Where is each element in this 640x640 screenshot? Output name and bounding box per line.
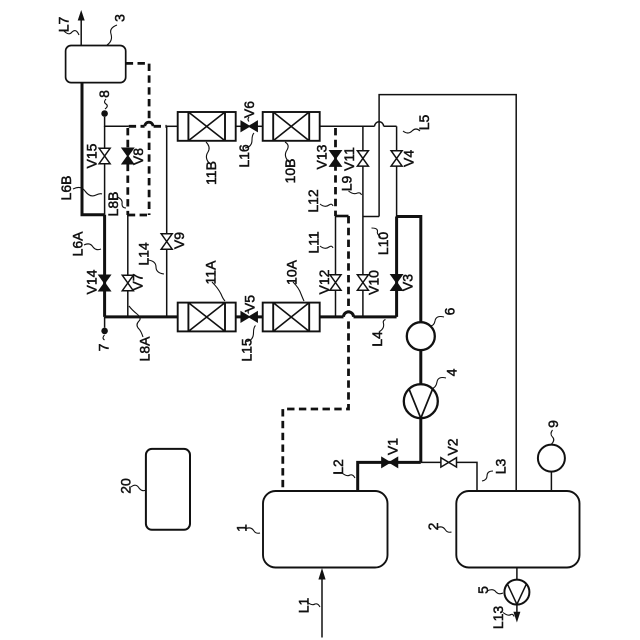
- label L9: [338, 176, 361, 195]
- valve V5 (closed): [241, 295, 258, 322]
- svg-text:V12: V12: [316, 269, 332, 294]
- svg-text:9: 9: [545, 420, 561, 428]
- valve V14 (closed): [83, 269, 110, 294]
- label L6B: [58, 176, 102, 201]
- heat exchanger 11B: [178, 112, 236, 141]
- svg-text:10B: 10B: [282, 159, 298, 184]
- svg-text:L1: L1: [295, 598, 311, 614]
- svg-text:L2: L2: [330, 459, 346, 475]
- wire 10B to V4 corner with hop over x379: [320, 125, 397, 127]
- svg-text:L6A: L6A: [69, 231, 85, 257]
- wire dashed V8 line: [126, 128, 129, 215]
- valve V13 (closed): [314, 144, 341, 169]
- wire V4 line down: [396, 126, 398, 216]
- wire V9/L14 line: [166, 126, 168, 317]
- label 10B: [282, 142, 298, 183]
- heat exchanger 10A: [263, 303, 320, 332]
- tank 2: [456, 491, 579, 568]
- wire V7 line: [127, 215, 129, 317]
- label L8B: [105, 192, 126, 217]
- label L4: [369, 320, 385, 347]
- svg-text:V6: V6: [241, 101, 257, 118]
- svg-text:8: 8: [96, 90, 112, 98]
- valve V7: [122, 273, 145, 290]
- svg-text:2: 2: [425, 522, 441, 530]
- label L1: [295, 598, 320, 614]
- wire node7 stub: [104, 317, 106, 328]
- svg-text:6: 6: [441, 307, 457, 315]
- svg-text:3: 3: [111, 14, 127, 22]
- wire thick bottom row y317: [105, 315, 397, 318]
- wire dashed from vessel 3 right (L8B upper): [126, 63, 149, 121]
- label 3: [107, 14, 127, 45]
- svg-text:L4: L4: [369, 331, 385, 347]
- wire thin V2/L3: [421, 462, 477, 491]
- wire thick from vessel 3 bottom: [82, 83, 105, 215]
- label 11A: [202, 260, 225, 301]
- wire solid to HX 11B: [167, 125, 178, 127]
- label L15: [238, 326, 255, 362]
- valve V11: [341, 147, 368, 171]
- wire V11/V10 line: [362, 126, 364, 317]
- svg-text:V8: V8: [130, 148, 146, 165]
- label 8: [96, 90, 112, 109]
- gauge 9: [538, 420, 565, 491]
- label 20: [117, 478, 146, 494]
- tank 1: [263, 491, 388, 568]
- vessel 3: [66, 46, 126, 83]
- valve V4: [391, 150, 417, 167]
- svg-text:L8A: L8A: [136, 336, 152, 362]
- pump 5: [475, 568, 530, 605]
- valve V2: [441, 438, 461, 467]
- wire dashed L12 down to corner: [283, 216, 349, 491]
- valve V12: [316, 269, 341, 294]
- gauge 6: [407, 307, 458, 350]
- svg-text:11A: 11A: [202, 260, 218, 285]
- label L8A: [129, 306, 152, 361]
- svg-text:10A: 10A: [283, 259, 299, 285]
- node 7: [101, 328, 108, 335]
- wire V12 line: [335, 216, 337, 317]
- node L7 label: [55, 17, 79, 35]
- wire thick L2: [358, 462, 421, 491]
- label 11B: [203, 142, 219, 185]
- node 8: [101, 110, 108, 117]
- svg-text:L5: L5: [416, 115, 432, 131]
- svg-text:V4: V4: [401, 150, 417, 167]
- svg-text:L10: L10: [375, 232, 391, 256]
- valve V1 (closed): [382, 438, 400, 467]
- svg-text:V1: V1: [384, 438, 400, 455]
- valve V3 (closed): [391, 274, 416, 291]
- label L5: [403, 115, 432, 133]
- valve V15: [83, 143, 110, 168]
- wire L7 arrow: [78, 10, 85, 46]
- svg-text:L6B: L6B: [58, 176, 74, 201]
- svg-text:7: 7: [95, 343, 111, 351]
- svg-text:L3: L3: [492, 459, 508, 475]
- svg-text:L12: L12: [305, 189, 321, 213]
- valve V9: [161, 232, 187, 249]
- label 1: [233, 524, 260, 533]
- svg-text:L15: L15: [238, 338, 254, 362]
- wire dashed vertical continues below hop: [148, 131, 151, 215]
- svg-text:11B: 11B: [203, 161, 219, 185]
- svg-text:V5: V5: [242, 295, 258, 312]
- wire L13 arrow: [513, 605, 520, 623]
- svg-text:20: 20: [117, 478, 133, 494]
- svg-text:L16: L16: [236, 144, 252, 168]
- svg-text:V9: V9: [171, 232, 187, 249]
- label L16: [236, 133, 254, 168]
- svg-text:V7: V7: [130, 273, 146, 290]
- wire 11B to V6: [236, 125, 242, 127]
- label L11: [305, 231, 333, 254]
- svg-text:L14: L14: [135, 242, 151, 266]
- label L2: [330, 459, 355, 478]
- wire jog dashed to solid: [336, 215, 349, 218]
- label 2: [425, 522, 452, 532]
- wire L1 arrow: [318, 568, 325, 638]
- heat exchanger 10B: [263, 112, 320, 141]
- svg-text:V13: V13: [314, 144, 330, 169]
- wire hop over loop line: [375, 122, 384, 127]
- wire hop over dashed: [145, 122, 153, 126]
- svg-text:L8B: L8B: [105, 192, 121, 217]
- label 10A: [283, 259, 304, 301]
- svg-text:V2: V2: [445, 438, 461, 455]
- label L3: [482, 459, 508, 481]
- valve V6 (closed): [241, 101, 257, 131]
- svg-text:L13: L13: [490, 606, 506, 630]
- wire dashed horizontal y126 (L8B) with hop over box3 dash: [129, 125, 145, 128]
- svg-text:V10: V10: [366, 270, 382, 295]
- wire node8 down and corner right: [105, 117, 129, 127]
- wire dashed V13 line: [334, 128, 337, 216]
- svg-text:L11: L11: [305, 231, 321, 254]
- label 7: [95, 335, 111, 351]
- label L13: [490, 606, 514, 630]
- label L12: [305, 189, 333, 213]
- svg-text:L9: L9: [338, 176, 354, 192]
- label L14: [135, 242, 164, 274]
- svg-text:V14: V14: [83, 269, 99, 294]
- label L10: [372, 228, 391, 255]
- wire top loop L5: [379, 95, 516, 491]
- svg-text:L7: L7: [55, 17, 71, 33]
- svg-text:4: 4: [443, 368, 459, 376]
- wire V6 to 10B: [257, 125, 263, 127]
- label L6A: [69, 231, 101, 257]
- heat exchanger 11A: [178, 303, 236, 332]
- controller 20: [146, 449, 190, 530]
- wire thick top to pump column: [397, 217, 421, 463]
- wire thick V14 line: [103, 215, 106, 317]
- wire thick V3 line: [395, 217, 398, 317]
- wire hop thick over dashed: [344, 312, 354, 317]
- svg-text:V15: V15: [83, 143, 99, 168]
- pump 4: [404, 368, 460, 418]
- wire V15 line: [104, 126, 106, 215]
- wire corner x379 to V11 line: [363, 216, 379, 218]
- svg-text:V3: V3: [400, 274, 416, 291]
- wire dashed bottom connector y215: [128, 214, 149, 217]
- valve V10: [357, 270, 381, 295]
- wire dashed to V9 line: [154, 125, 167, 128]
- valve V8 (closed): [122, 148, 146, 165]
- svg-text:V11: V11: [341, 147, 357, 171]
